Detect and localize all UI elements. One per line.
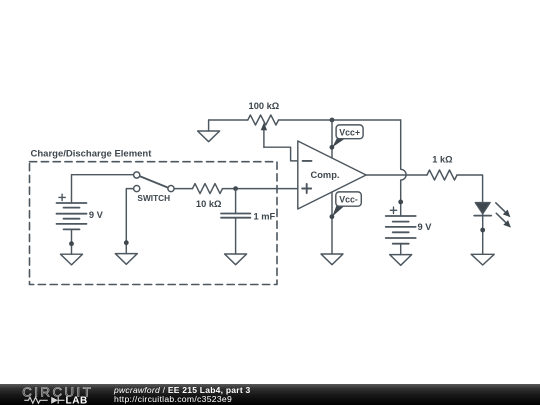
wire top rail left of potentiometer: [209, 119, 248, 121]
node dot below LED: [480, 228, 485, 233]
ground G4 LED: [471, 254, 494, 265]
node dot left battery ground: [69, 241, 74, 246]
svg-text:Vcc-: Vcc-: [339, 195, 358, 205]
wire switch lower throw to ground: [126, 189, 133, 254]
svg-text:Charge/Discharge Element: Charge/Discharge Element: [31, 149, 153, 160]
footer url text: [114, 395, 232, 404]
capacitor C1 1 mF: [221, 189, 276, 254]
battery V1 9 V (left): [57, 175, 134, 230]
svg-text:LAB: LAB: [66, 395, 88, 405]
wire op-amp Vcc- pin: [331, 192, 333, 254]
wire top rail right of potentiometer: [279, 119, 401, 121]
node dot above right battery: [398, 200, 403, 205]
node dot switch ground: [124, 240, 129, 245]
node dot capacitor junction: [233, 186, 238, 191]
resistor R2 1 kΩ: [427, 155, 457, 180]
svg-text:9 V: 9 V: [89, 210, 104, 220]
wire battery to ground: [400, 244, 402, 255]
net flag Vcc+: [330, 125, 364, 150]
wire switch pole to resistor: [174, 188, 192, 190]
switch SW1 SPDT SWITCH: [134, 172, 175, 203]
resistor R1 10 kΩ: [193, 184, 223, 210]
net flag Vcc-: [330, 192, 362, 219]
dashed enclosure Charge/Discharge Element: [30, 149, 278, 285]
wire vertical supply with hop over output: [401, 120, 406, 216]
svg-text:1 mF: 1 mF: [254, 212, 276, 222]
ground G5 left battery: [61, 254, 83, 265]
CircuitLab logo: [0, 384, 120, 405]
svg-text:SWITCH: SWITCH: [137, 193, 170, 203]
svg-text:Vcc+: Vcc+: [339, 127, 360, 137]
svg-text:100 kΩ: 100 kΩ: [249, 101, 280, 111]
wire op-amp output: [366, 174, 427, 176]
wire left battery to ground: [71, 229, 73, 254]
ground G2 op-amp negative supply: [321, 254, 343, 265]
footer title text: [114, 386, 251, 395]
wire wiper to op-amp inverting input: [264, 147, 298, 161]
wire resistor to op-amp non-inverting input: [223, 188, 298, 190]
svg-text:1 kΩ: 1 kΩ: [432, 155, 453, 165]
ground G1 top-left (potentiometer left terminal): [198, 120, 220, 142]
footer bar: [0, 384, 540, 405]
ground G6 switch: [115, 254, 137, 265]
svg-text:9 V: 9 V: [418, 222, 433, 232]
potentiometer 100 kΩ: [248, 101, 280, 147]
LED D1: [474, 203, 511, 228]
ground G3 right battery: [390, 255, 412, 266]
svg-text:10 kΩ: 10 kΩ: [196, 199, 222, 209]
wire op-amp Vcc+ pin: [331, 120, 333, 159]
battery V2 9 V (right): [386, 207, 433, 244]
ground G7 capacitor: [225, 254, 247, 265]
svg-text:Comp.: Comp.: [311, 170, 340, 180]
wire LED to ground: [482, 214, 484, 255]
op-amp U1 Comp.: [298, 141, 366, 209]
node junction dot top rail / Vcc+ pin: [330, 118, 335, 123]
wire resistor to LED: [457, 175, 483, 203]
